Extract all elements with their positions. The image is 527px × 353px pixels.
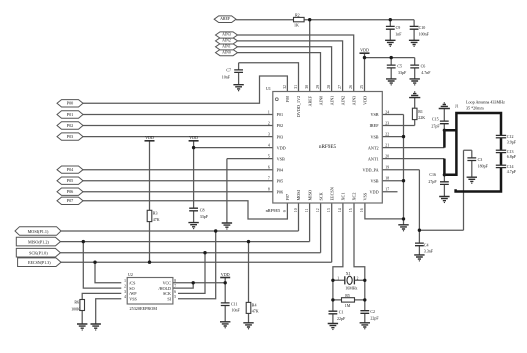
svg-text:3: 3 xyxy=(268,133,270,137)
svg-text:1nF: 1nF xyxy=(395,32,402,37)
svg-text:21: 21 xyxy=(385,144,389,148)
svg-text:VDD: VDD xyxy=(363,96,368,105)
svg-text:VDD: VDD xyxy=(370,189,379,194)
svg-text:P03: P03 xyxy=(67,134,74,139)
svg-text:AIN1: AIN1 xyxy=(222,45,231,49)
svg-text:XC1: XC1 xyxy=(340,193,345,201)
svg-text:C2: C2 xyxy=(370,309,375,314)
svg-text:4.7pF: 4.7pF xyxy=(507,169,517,174)
svg-text:C10: C10 xyxy=(419,25,426,30)
svg-text:3.9pF: 3.9pF xyxy=(507,139,517,144)
svg-text:/HOLD: /HOLD xyxy=(158,286,171,291)
svg-text:C4: C4 xyxy=(424,242,429,247)
svg-text:P02: P02 xyxy=(67,123,74,128)
svg-text:35 *20mm: 35 *20mm xyxy=(466,106,484,111)
svg-text:nRF9E5: nRF9E5 xyxy=(266,208,281,213)
svg-text:P04: P04 xyxy=(277,167,284,172)
svg-text:15: 15 xyxy=(349,208,353,212)
svg-text:1K: 1K xyxy=(294,23,299,28)
svg-text:AIN2: AIN2 xyxy=(340,96,345,106)
svg-text:AIN3: AIN3 xyxy=(222,33,231,37)
svg-text:DVDD_1V2: DVDD_1V2 xyxy=(296,96,301,117)
svg-text:VDD: VDD xyxy=(189,135,198,140)
svg-text:Loop Antenna 433MHz: Loop Antenna 433MHz xyxy=(466,99,505,104)
svg-text:22pF: 22pF xyxy=(370,316,379,321)
svg-text:/CS: /CS xyxy=(129,281,136,286)
svg-text:3: 3 xyxy=(124,290,126,294)
svg-text:VCC: VCC xyxy=(163,281,172,286)
svg-text:R6: R6 xyxy=(74,300,79,305)
svg-text:/WP: /WP xyxy=(129,291,137,296)
svg-text:2: 2 xyxy=(268,122,270,126)
svg-text:P05: P05 xyxy=(67,178,74,183)
svg-text:8: 8 xyxy=(174,279,176,283)
svg-text:R1: R1 xyxy=(418,109,423,114)
svg-text:R4: R4 xyxy=(252,302,257,307)
svg-text:P04: P04 xyxy=(67,167,74,172)
svg-text:7: 7 xyxy=(268,177,270,181)
svg-text:27pF: 27pF xyxy=(431,124,440,129)
svg-text:28: 28 xyxy=(327,85,331,89)
svg-text:1: 1 xyxy=(124,279,126,283)
svg-text:MOSI: MOSI xyxy=(296,189,301,200)
svg-text:27pF: 27pF xyxy=(428,179,437,184)
svg-text:17: 17 xyxy=(385,188,389,192)
svg-text:19: 19 xyxy=(385,166,389,170)
svg-text:SCK: SCK xyxy=(163,291,171,296)
svg-text:2: 2 xyxy=(124,285,126,289)
svg-text:3.3nF: 3.3nF xyxy=(424,249,434,254)
svg-text:P01: P01 xyxy=(277,112,284,117)
svg-text:10nF: 10nF xyxy=(222,74,231,79)
svg-text:P03: P03 xyxy=(277,134,284,139)
svg-text:P01: P01 xyxy=(67,112,74,117)
svg-text:26: 26 xyxy=(349,85,353,89)
svg-text:AREF: AREF xyxy=(220,17,231,21)
svg-text:VDD: VDD xyxy=(277,145,286,150)
svg-text:P00: P00 xyxy=(285,96,290,103)
svg-text:P02: P02 xyxy=(277,123,284,128)
svg-text:AIN2: AIN2 xyxy=(222,39,231,43)
svg-text:IREF: IREF xyxy=(370,123,380,128)
svg-text:SO: SO xyxy=(129,286,134,291)
svg-text:VSB: VSB xyxy=(370,178,378,183)
svg-text:ANT2: ANT2 xyxy=(368,145,379,150)
svg-text:33pF: 33pF xyxy=(398,70,407,75)
svg-text:C1: C1 xyxy=(339,310,344,315)
svg-text:6.8pF: 6.8pF xyxy=(507,154,517,159)
svg-text:2: 2 xyxy=(357,276,359,280)
svg-text:25: 25 xyxy=(360,85,364,89)
svg-text:11: 11 xyxy=(305,208,309,212)
svg-text:C11: C11 xyxy=(231,301,238,306)
svg-text:29: 29 xyxy=(316,85,320,89)
svg-text:12: 12 xyxy=(316,208,320,212)
svg-text:27: 27 xyxy=(338,85,342,89)
svg-text:X1: X1 xyxy=(346,271,351,276)
svg-text:C6: C6 xyxy=(421,63,426,68)
svg-text:47K: 47K xyxy=(153,217,160,222)
svg-text:180pF: 180pF xyxy=(478,164,489,169)
svg-text:AREF: AREF xyxy=(307,95,312,106)
svg-text:10nF: 10nF xyxy=(232,308,241,313)
svg-text:23: 23 xyxy=(385,122,389,126)
svg-text:30: 30 xyxy=(305,85,309,89)
svg-text:100K: 100K xyxy=(71,307,80,312)
svg-text:VSB: VSB xyxy=(370,112,378,117)
svg-text:1: 1 xyxy=(337,276,339,280)
svg-text:1: 1 xyxy=(268,111,270,115)
svg-text:32: 32 xyxy=(283,85,287,89)
svg-text:MISO: MISO xyxy=(307,190,312,200)
svg-text:33pF: 33pF xyxy=(200,214,209,219)
svg-text:U2: U2 xyxy=(128,272,133,277)
svg-text:VSS: VSS xyxy=(363,192,368,200)
svg-text:16MHz: 16MHz xyxy=(345,285,357,290)
svg-text:VSS: VSS xyxy=(129,296,137,301)
svg-text:C3: C3 xyxy=(478,157,483,162)
svg-text:R2: R2 xyxy=(295,12,300,17)
svg-text:VDD: VDD xyxy=(360,48,369,53)
svg-text:9: 9 xyxy=(283,210,287,212)
svg-text:EECSN(P1.3): EECSN(P1.3) xyxy=(28,260,51,265)
svg-text:SCK: SCK xyxy=(318,192,323,200)
svg-text:C15: C15 xyxy=(432,116,439,121)
svg-text:MOSI(P1.1): MOSI(P1.1) xyxy=(28,229,49,234)
svg-text:100nF: 100nF xyxy=(419,32,430,37)
svg-text:P00: P00 xyxy=(67,101,74,106)
svg-text:SI: SI xyxy=(167,296,171,301)
svg-text:XC2: XC2 xyxy=(352,193,357,201)
svg-text:P06: P06 xyxy=(277,189,284,194)
svg-text:U1: U1 xyxy=(266,86,271,91)
svg-text:VDD_PA: VDD_PA xyxy=(362,167,378,172)
svg-text:P05: P05 xyxy=(277,178,284,183)
svg-text:10: 10 xyxy=(294,208,298,212)
svg-text:VSB: VSB xyxy=(370,134,378,139)
svg-text:14: 14 xyxy=(338,208,342,212)
svg-text:25320EEPROM: 25320EEPROM xyxy=(130,306,158,311)
svg-text:SCK(P1.0): SCK(P1.0) xyxy=(29,251,48,256)
svg-text:VDD: VDD xyxy=(145,135,154,140)
svg-text:C9: C9 xyxy=(396,25,401,30)
svg-text:C7: C7 xyxy=(226,68,231,73)
svg-text:8: 8 xyxy=(268,188,270,192)
svg-text:47K: 47K xyxy=(252,309,259,314)
svg-text:24: 24 xyxy=(385,111,389,115)
svg-text:P07: P07 xyxy=(67,198,74,203)
svg-text:AIN3: AIN3 xyxy=(352,96,357,106)
svg-text:16: 16 xyxy=(360,208,364,212)
svg-text:nRF9E5: nRF9E5 xyxy=(319,144,337,150)
svg-text:R5: R5 xyxy=(345,293,350,298)
svg-text:1M: 1M xyxy=(345,303,351,308)
svg-text:R3: R3 xyxy=(153,210,158,215)
svg-text:VDD: VDD xyxy=(221,272,230,277)
svg-text:5: 5 xyxy=(268,155,270,159)
svg-text:22K: 22K xyxy=(418,115,425,120)
svg-text:ANT1: ANT1 xyxy=(368,156,379,161)
svg-text:20: 20 xyxy=(385,155,389,159)
svg-text:AIN1: AIN1 xyxy=(329,96,334,106)
svg-text:4: 4 xyxy=(268,144,270,148)
svg-text:C8: C8 xyxy=(200,207,205,212)
svg-text:AIN0: AIN0 xyxy=(222,50,231,54)
svg-text:7: 7 xyxy=(174,285,176,289)
svg-text:6: 6 xyxy=(174,290,176,294)
svg-text:31: 31 xyxy=(294,85,298,89)
svg-text:13: 13 xyxy=(327,208,331,212)
svg-text:MISO(P1.2): MISO(P1.2) xyxy=(28,240,49,245)
svg-text:P07: P07 xyxy=(285,194,290,201)
svg-text:4.7nF: 4.7nF xyxy=(421,70,431,75)
svg-text:VSB: VSB xyxy=(277,156,285,161)
svg-text:AIN0: AIN0 xyxy=(318,96,323,106)
svg-text:EECSN: EECSN xyxy=(329,187,334,200)
svg-text:P06: P06 xyxy=(67,189,74,194)
svg-text:6: 6 xyxy=(268,166,270,170)
svg-text:22: 22 xyxy=(385,133,389,137)
svg-text:J1: J1 xyxy=(455,103,459,108)
svg-text:C16: C16 xyxy=(429,172,436,177)
svg-text:4: 4 xyxy=(124,295,126,299)
svg-text:5: 5 xyxy=(174,295,176,299)
svg-text:22pF: 22pF xyxy=(337,316,346,321)
svg-text:18: 18 xyxy=(385,177,389,181)
svg-text:C5: C5 xyxy=(397,63,402,68)
